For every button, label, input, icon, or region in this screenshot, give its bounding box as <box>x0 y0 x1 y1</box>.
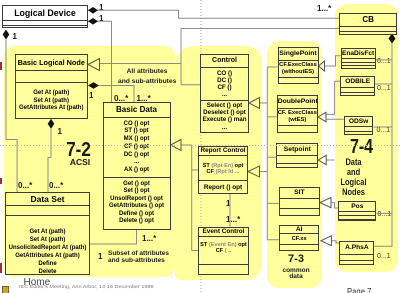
wire LD to CB <box>88 10 339 18</box>
triangle gen arrow at AI <box>321 236 331 246</box>
label 1...* below Basic Data <box>142 234 156 243</box>
wire gen trunk BLN (CB and Control inherit) <box>100 29 340 85</box>
red edge mark middle <box>0 178 2 184</box>
class Logical Device <box>2 5 88 28</box>
red edge mark bottom <box>0 263 2 273</box>
class Setpoint <box>276 143 318 169</box>
diamond CB composition <box>389 34 396 44</box>
diamond LD-DataSet composition <box>3 30 10 40</box>
triangle gen arrow at SIT <box>320 198 331 208</box>
label Data and Logical Nodes <box>335 157 371 197</box>
diamond LD-CB composition <box>88 7 98 14</box>
label 1...* at CB <box>317 4 331 13</box>
wire BLN diamond to Basic Data <box>99 86 134 103</box>
class SIT <box>279 187 320 217</box>
label ACSI <box>56 157 104 167</box>
class ODSw <box>344 116 374 135</box>
triangle gen arrow at Basic Data <box>171 140 182 151</box>
wire Pos to SIT gen <box>331 203 338 208</box>
footer icon <box>2 286 9 293</box>
label 0...* above Data Set left <box>18 181 32 190</box>
note Subset of attributes <box>108 250 164 264</box>
wire A.PhsA to AI gen <box>331 241 339 243</box>
wire CB composition trunk <box>373 44 392 247</box>
label 0...1 at ODBILE <box>377 85 391 92</box>
class Pos <box>338 201 376 222</box>
class CB <box>339 13 397 35</box>
triangle gen arrow at BLN <box>88 59 100 71</box>
wire gen trunk Basic Data (RC, EC inherit) <box>181 145 198 251</box>
label 1 at LD-BasicData diamond <box>99 14 103 23</box>
wire Setpoint gen stub <box>326 159 334 161</box>
dotted horizontal guide <box>0 145 400 147</box>
label common data <box>274 268 318 281</box>
wire LD to Basic Data <box>88 21 112 102</box>
class Basic Data <box>103 102 171 230</box>
label 1 at BLN bottom diamond <box>58 127 62 136</box>
class AI <box>279 225 320 252</box>
dotted vertical guide <box>200 0 202 293</box>
class Basic Logical Node <box>15 54 88 119</box>
label Home <box>24 277 51 288</box>
diamond LD-BasicData composition <box>88 18 98 25</box>
triangle gen arrow at Setpoint <box>318 155 326 164</box>
panel 7-2 ACSI left <box>4 46 175 277</box>
wire Data Set to Basic Data <box>90 230 137 244</box>
class Event Control <box>198 227 249 276</box>
wire LD to Data Set <box>6 40 17 193</box>
label 0...* above Data Set right <box>49 181 63 190</box>
red edge mark top <box>0 62 2 70</box>
class ODBILE <box>340 76 375 96</box>
triangle gen arrow at Control <box>249 98 260 109</box>
label Page 7 <box>347 287 371 293</box>
label 7-2 <box>59 139 97 162</box>
wire ODSw to DoublePoint gen <box>326 118 344 120</box>
triangle gen arrow at Report Control <box>248 166 260 177</box>
class Report Control <box>198 146 248 194</box>
wire BLN to Data Set <box>48 129 51 192</box>
label 1...* above Basic Data <box>137 94 151 103</box>
footer partial second line <box>30 292 159 293</box>
class A.PhsA <box>339 241 374 265</box>
triangle gen arrow at DoublePoint <box>318 112 326 121</box>
class Data Set <box>5 192 90 275</box>
class Control <box>200 54 249 134</box>
footer meeting text <box>19 284 154 289</box>
label 1 at BLN diamond <box>89 91 93 100</box>
label 7-3 <box>274 253 318 265</box>
label 0...1 at EnaDisFct <box>377 58 391 65</box>
label 1 below Report Control <box>226 199 230 208</box>
label 1 at Data Set assoc <box>98 252 102 261</box>
label 0...1 at A.PhsA <box>377 253 391 260</box>
wire EnaDisFct to SinglePoint gen <box>325 56 341 66</box>
class EnaDisFct <box>341 48 376 69</box>
triangle gen arrow at SinglePoint <box>319 61 325 71</box>
class SinglePoint <box>278 47 319 84</box>
diamond BLN-DataSet composition <box>48 119 55 129</box>
label 1 at LD-CB diamond <box>99 3 103 12</box>
panel control middle <box>175 46 262 281</box>
note All attributes <box>118 67 176 88</box>
label 1 at LD-DataSet diamond <box>13 32 17 41</box>
wire ODBILE to DoublePoint gen <box>326 81 340 114</box>
panel 7-3 common data <box>267 41 323 289</box>
label 0...1 at ODSw <box>377 127 391 134</box>
label 7-4 <box>343 136 379 159</box>
label 0...* above Basic Data <box>114 94 128 103</box>
class DoublePoint <box>277 95 318 133</box>
diamond BLN-BasicData composition <box>88 82 99 89</box>
wire RC to EC association <box>229 194 231 227</box>
label 0...1 at Pos <box>378 211 392 218</box>
wire gen trunk Control/RC (7-3 classes inherit) <box>260 67 279 240</box>
panel 7-4 data and logical nodes <box>335 4 399 272</box>
label 1...* above Event Control <box>226 215 240 224</box>
